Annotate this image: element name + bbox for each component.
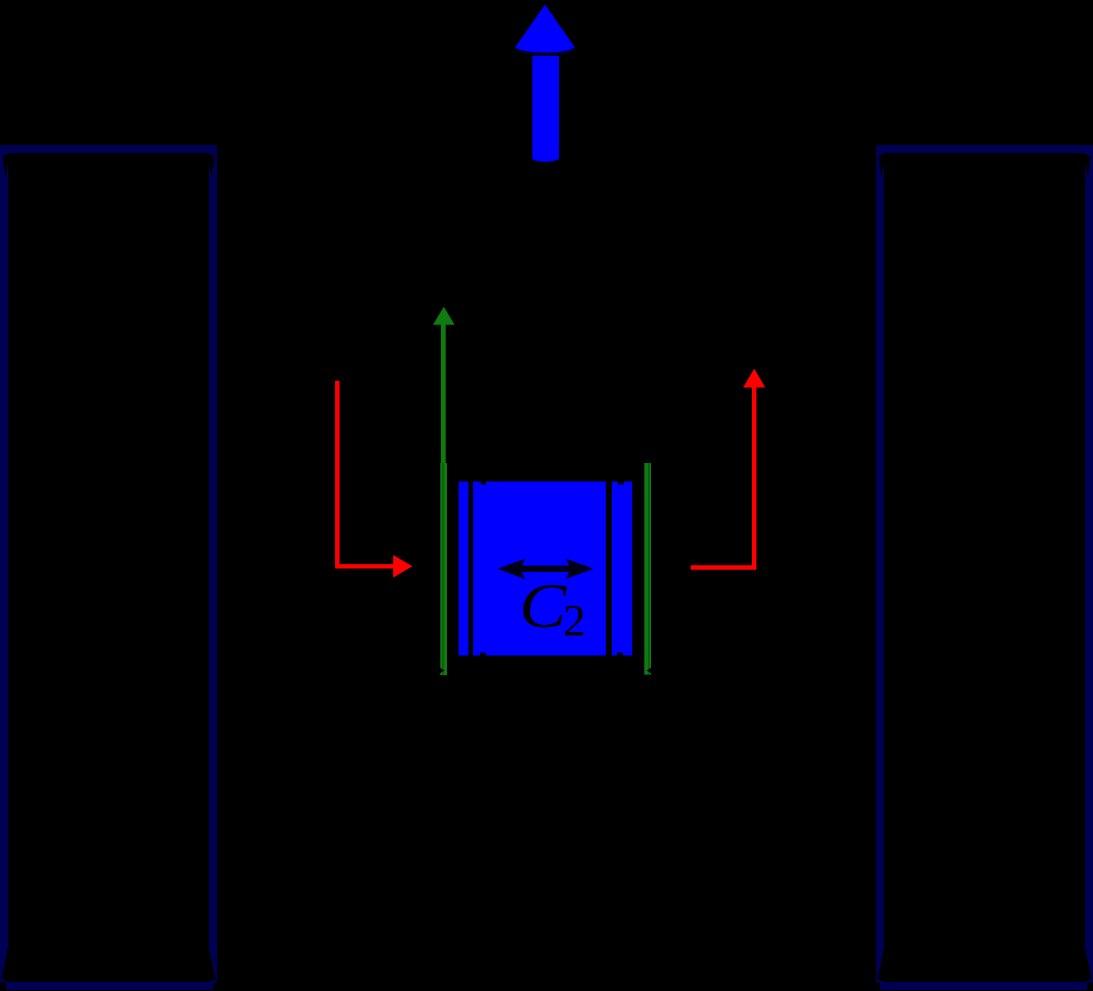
cylinder edge line left (black) [468,482,473,656]
svg-text:C: C [519,571,567,641]
svg-text:2: 2 [563,596,586,645]
red current arrow left (down then right) [337,381,412,578]
green flux arrow (up) [433,307,455,675]
right coil wall (navy rectangle) [876,149,1093,991]
magnet velocity arrow shaft (blue 3D arrow) [532,56,559,162]
oscillation double arrow (black) [498,559,594,580]
red current arrow right (right then up) [691,369,766,568]
cylinder edge line right (black) [606,482,612,656]
cylinder arc notch top-right [618,482,624,485]
cylinder arc notch bottom-left [480,653,486,656]
right capacitor plate (green) [644,463,651,675]
magnet velocity arrow cone head [515,5,575,55]
capacitor C2 body (blue box) [459,482,633,656]
left coil wall (navy rectangle) [0,149,218,991]
black arrow notch on right plate bottom [647,664,658,677]
cylinder arc notch top-left [481,482,486,485]
black arrow notch on left plate bottom [434,664,445,677]
left capacitor plate (green) [440,463,447,675]
cylinder arc notch bottom-right [617,653,623,656]
